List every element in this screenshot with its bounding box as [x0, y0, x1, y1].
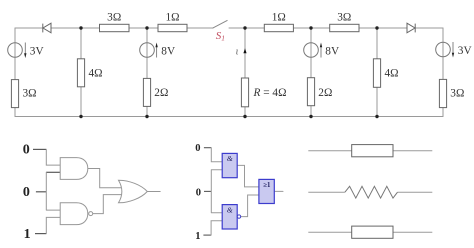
svg-text:3Ω: 3Ω [450, 88, 464, 100]
voltage source 8V left circle [140, 43, 155, 58]
wire input B stub dark iec [204, 190, 211, 192]
voltage source 3V left circle [8, 43, 23, 58]
wire branch V8a [146, 28, 148, 117]
svg-text:3V: 3V [30, 46, 45, 58]
wire branch V8b [310, 28, 312, 117]
wire branch R center [244, 28, 246, 117]
NAND gate U2 [60, 203, 88, 225]
junction dots top rail [79, 26, 378, 29]
svg-text:R = 4Ω: R = 4Ω [253, 87, 287, 99]
svg-text:1: 1 [195, 231, 200, 242]
arrow 8V left up [155, 43, 157, 58]
AND gate U1 [60, 158, 88, 180]
wire input A stub dark [33, 148, 46, 150]
OR gate U3 [119, 180, 148, 203]
svg-text:4Ω: 4Ω [385, 68, 399, 80]
current arrow i [243, 48, 246, 53]
resistor 3ohm right vertical box [439, 79, 446, 107]
wire input B stub dark [36, 191, 46, 193]
resistor 3ohm left vertical box [11, 80, 18, 108]
svg-text:3Ω: 3Ω [337, 12, 351, 24]
wire OR output iec [274, 190, 283, 192]
wire resistor row1 [308, 150, 432, 152]
svg-text:&: & [227, 154, 233, 163]
AND block U4 [222, 153, 237, 177]
resistor 3ohm top-right box [330, 24, 359, 31]
junction dots bottom rail [79, 115, 378, 118]
resistor 4ohm left vertical box [77, 59, 84, 87]
wire input A stub dark iec [204, 147, 211, 149]
svg-text:0: 0 [23, 185, 30, 200]
wire branch R4a [80, 28, 82, 117]
switch S1 lever [213, 20, 228, 28]
resistor 4ohm right vertical box [373, 59, 380, 88]
arrow 8V right up [320, 43, 322, 58]
svg-text:ι: ι [236, 46, 239, 57]
resistor 2ohm right vertical box [307, 78, 314, 106]
wire input C jog [46, 217, 60, 233]
diode D1 [43, 23, 51, 33]
svg-text:2Ω: 2Ω [318, 87, 332, 99]
NAND bubble [89, 212, 93, 216]
voltage source 3V right circle [436, 42, 451, 57]
svg-text:3Ω: 3Ω [23, 87, 37, 99]
svg-text:2Ω: 2Ω [154, 87, 168, 99]
NAND bubble iec [237, 215, 240, 218]
svg-text:8V: 8V [161, 46, 176, 58]
svg-text:3V: 3V [458, 45, 473, 57]
svg-text:3Ω: 3Ω [107, 12, 121, 24]
resistor row2 american zigzag [345, 186, 398, 198]
wire NAND output [93, 195, 122, 214]
wire input B split iec [211, 170, 222, 213]
svg-text:1Ω: 1Ω [272, 12, 286, 24]
wire AND input2 dark [46, 171, 60, 173]
wire input A jog iec [211, 148, 222, 162]
wire AND1 output [88, 169, 122, 188]
wire input C jog iec [211, 221, 222, 235]
voltage source 8V right circle [304, 43, 319, 58]
wire bottom rail [15, 116, 443, 118]
wire OR output [147, 191, 160, 193]
svg-text:4Ω: 4Ω [89, 68, 103, 80]
svg-text:1Ω: 1Ω [165, 12, 179, 24]
svg-text:8V: 8V [325, 46, 340, 58]
svg-text:S1: S1 [216, 30, 225, 42]
resistor row3 european box [352, 226, 393, 238]
svg-text:≥1: ≥1 [263, 182, 271, 189]
wire top rail left [15, 27, 213, 29]
wire resistor row2 left lead [308, 191, 345, 193]
wire resistor row2 right lead [398, 191, 433, 193]
svg-text:0: 0 [195, 143, 200, 154]
resistor row1 european box [352, 145, 393, 157]
wire input C stub dark iec [203, 234, 211, 236]
NAND block U5 [222, 205, 237, 229]
wire branch V1 [14, 28, 16, 117]
resistor 3ohm top-left box [100, 24, 130, 31]
svg-text:0: 0 [196, 188, 201, 199]
svg-text:0: 0 [23, 143, 30, 158]
wire resistor row3 [308, 231, 432, 233]
OR block U6 [259, 179, 274, 203]
svg-text:1: 1 [24, 227, 31, 242]
resistor 1ohm top-left box [158, 24, 187, 31]
wire top rail right [229, 27, 443, 29]
resistor 1ohm top-right box [264, 24, 293, 31]
resistor R center vertical box [241, 78, 248, 107]
wire branch V3b [442, 28, 444, 117]
wire input C stub dark [35, 233, 46, 235]
diode D2 [407, 23, 415, 33]
svg-text:&: & [227, 205, 233, 214]
resistor 2ohm left vertical box [143, 78, 150, 106]
wire AND1 output iec [237, 165, 259, 187]
wire input A jog [46, 149, 60, 165]
arrow 3V right down [452, 42, 454, 58]
wire branch R4b [376, 28, 378, 117]
wire NAND output iec [241, 195, 259, 217]
arrow 3V left down [24, 43, 26, 59]
wire input B split [46, 172, 60, 210]
